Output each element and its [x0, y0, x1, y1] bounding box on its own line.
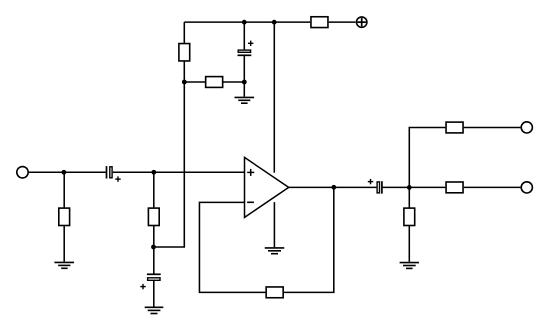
output terminal upper: [521, 122, 532, 133]
wire C3 top stub: [243, 22, 245, 49]
node C dot (R2/C2 junction): [151, 245, 156, 250]
wire op-amp V+ supply from rail: [273, 22, 275, 173]
node dot on rail at op-amp supply branch: [272, 20, 277, 25]
capacitor C1 (polarized, input coupling, positive plate right): [107, 166, 121, 182]
input terminal (left): [17, 167, 28, 178]
node A dot (left vertical at y=82): [182, 80, 187, 85]
wire R9 to lower output terminal: [464, 186, 521, 188]
resistor R9 (horizontal, lower output): [446, 182, 463, 193]
wire C2 top stub below node C: [153, 247, 155, 274]
op-amp U1: [245, 157, 289, 217]
node B dot (cap/ground node at y=82): [242, 80, 247, 85]
capacitor C4 (polarized, output coupling, positive plate left): [368, 179, 382, 194]
ground G5 (below R7): [400, 263, 419, 269]
wire R8 to upper output terminal: [464, 127, 521, 129]
ground G1 (below node B): [235, 97, 255, 103]
wire inverting input feedback loop (left and bottom and right): [199, 187, 333, 292]
wire R1 branch input node to ground: [63, 172, 65, 261]
resistor R1 (vertical, input shunt): [59, 208, 70, 225]
ground G2 (op-amp V- pin): [265, 248, 285, 254]
wire top supply rail right segment: [329, 21, 356, 23]
wire op-amp V- pin to ground: [273, 202, 275, 247]
wire input terminal to C1: [29, 171, 106, 173]
wire row between node A and node B at y=82: [184, 81, 244, 83]
wire op-amp output to C4: [289, 186, 377, 188]
node dot input line at R1: [62, 170, 67, 175]
resistor R7 (vertical, output shunt): [404, 208, 415, 225]
positive supply terminal: [357, 17, 367, 27]
resistor R4 (horizontal, between node A and node B): [206, 77, 223, 88]
node dot op-amp output / feedback: [331, 185, 336, 190]
resistor R3 (horizontal, feedback): [266, 287, 283, 298]
resistor R5 (vertical, upper left): [179, 44, 190, 61]
wire C3 bottom stub to node B: [243, 55, 245, 82]
ground G3 (below R1): [54, 262, 74, 268]
wire node B to ground: [243, 82, 245, 97]
wire node D down through R7 to ground: [408, 187, 410, 261]
wire top supply rail left segment: [184, 21, 310, 23]
wire C4 to output node D: [382, 186, 409, 188]
wire node D up and right to R8: [409, 128, 445, 188]
wire node D to R9: [409, 186, 445, 188]
node dot input line at R2: [151, 170, 156, 175]
resistor R2 (vertical, second shunt): [148, 208, 159, 225]
wire long left vertical from rail down to lower node: [154, 22, 185, 247]
wire R2 branch from input line down to node C: [153, 172, 155, 247]
capacitor C2 (polarized, below node C, positive plate down): [140, 274, 160, 289]
wire C2 bottom stub to ground: [153, 281, 155, 307]
resistor R6 (horizontal, in supply rail): [311, 17, 328, 28]
node dot on rail at C3 branch: [242, 20, 247, 25]
capacitor C3 (polarized, top, positive plate up): [238, 41, 254, 56]
resistor R8 (horizontal, upper output): [446, 122, 463, 133]
node D dot (output splitter): [407, 185, 412, 190]
ground G4 (below C2): [145, 307, 164, 313]
wire C1 to op-amp noninverting input: [113, 171, 245, 173]
output terminal lower: [521, 182, 532, 193]
